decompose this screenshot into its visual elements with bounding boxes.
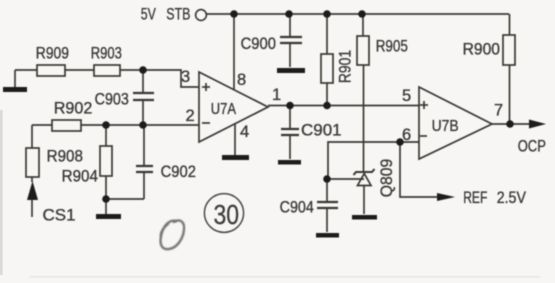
svg-text:5: 5 <box>402 87 411 105</box>
svg-text:2.5V: 2.5V <box>497 189 527 207</box>
svg-text:R908: R908 <box>47 147 83 166</box>
svg-text:Q809: Q809 <box>377 159 396 197</box>
svg-text:1: 1 <box>272 86 281 104</box>
svg-text:C901: C901 <box>301 121 342 140</box>
svg-text:OCP: OCP <box>518 137 546 156</box>
svg-text:CS1: CS1 <box>43 206 76 225</box>
svg-text:STB: STB <box>166 6 190 24</box>
svg-text:R902: R902 <box>54 98 93 117</box>
svg-text:C902: C902 <box>161 163 196 181</box>
svg-text:R904: R904 <box>62 167 98 186</box>
svg-text:C904: C904 <box>280 198 315 216</box>
svg-text:R909: R909 <box>36 44 69 63</box>
svg-text:C903: C903 <box>95 90 130 108</box>
svg-text:R903: R903 <box>91 44 122 63</box>
svg-text:8: 8 <box>237 71 246 89</box>
svg-text:REF: REF <box>463 189 487 207</box>
svg-text:U7B: U7B <box>432 117 459 135</box>
svg-text:3: 3 <box>181 68 190 86</box>
svg-text:R905: R905 <box>376 37 408 56</box>
svg-text:4: 4 <box>240 123 249 141</box>
svg-text:5V: 5V <box>141 6 156 24</box>
svg-text:C900: C900 <box>241 35 276 53</box>
svg-text:30: 30 <box>214 200 240 231</box>
svg-text:R900: R900 <box>463 40 500 59</box>
svg-text:7: 7 <box>494 102 503 120</box>
svg-text:6: 6 <box>402 126 411 144</box>
svg-text:2: 2 <box>186 107 195 125</box>
svg-text:U7A: U7A <box>211 101 236 119</box>
svg-text:R901: R901 <box>336 50 355 83</box>
